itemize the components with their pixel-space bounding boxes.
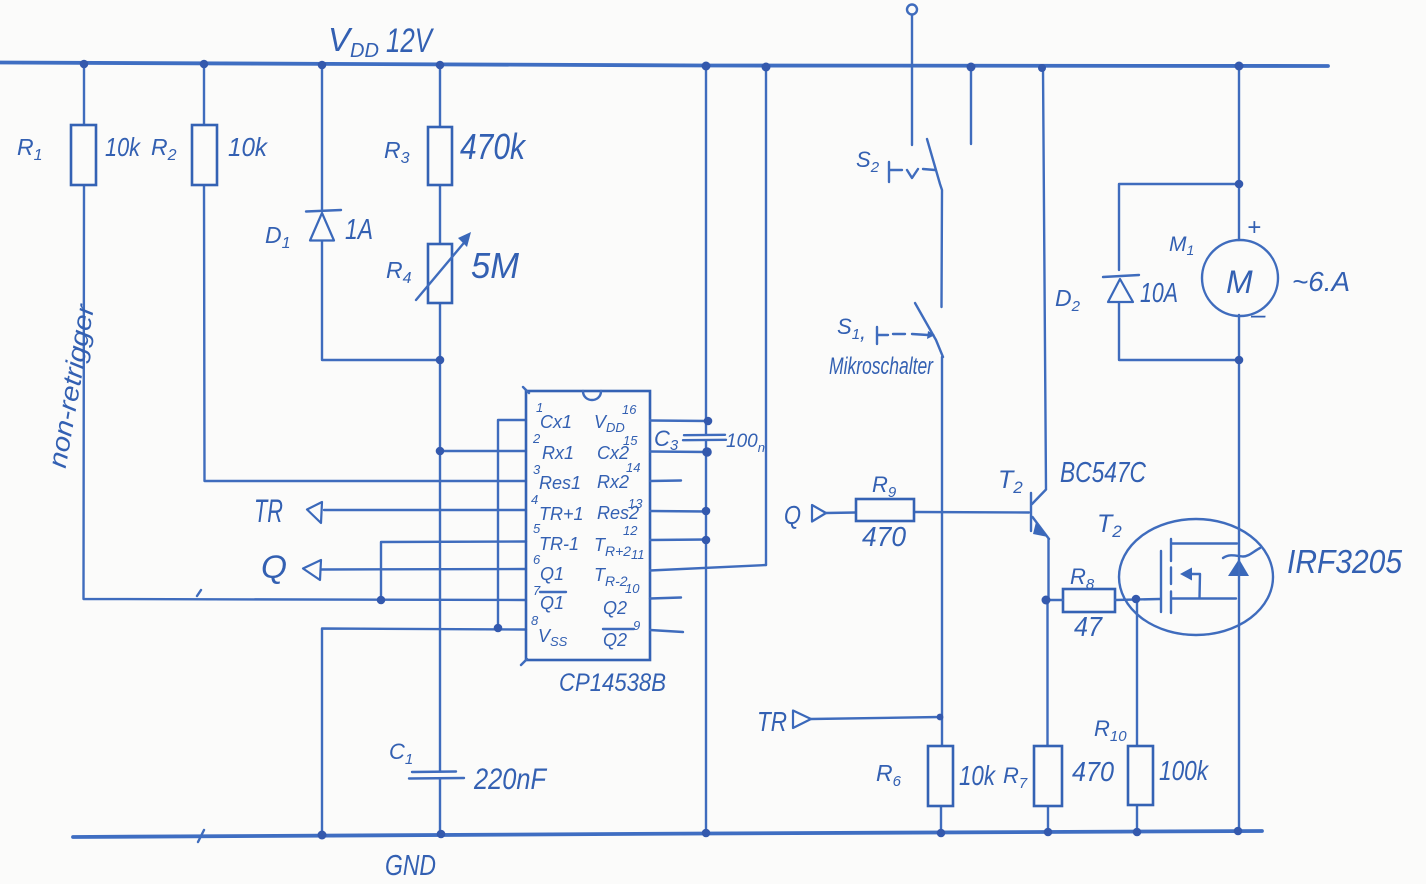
- svg-text:Q2: Q2: [603, 598, 627, 618]
- svg-text:100k: 100k: [1159, 755, 1210, 786]
- svg-text:470k: 470k: [460, 126, 527, 167]
- svg-text:5M: 5M: [471, 245, 519, 286]
- svg-text:Q2: Q2: [603, 630, 627, 650]
- svg-text:Q1: Q1: [540, 593, 564, 613]
- svg-text:Cx2: Cx2: [597, 443, 629, 463]
- svg-text:TR-1: TR-1: [539, 534, 579, 554]
- svg-text:1A: 1A: [345, 214, 373, 246]
- svg-text:10k: 10k: [105, 132, 142, 162]
- svg-text:Rx2: Rx2: [597, 472, 629, 492]
- svg-text:BC547C: BC547C: [1060, 457, 1147, 489]
- svg-text:12: 12: [623, 523, 638, 538]
- svg-text:2: 2: [532, 431, 541, 446]
- svg-text:11: 11: [631, 547, 645, 562]
- svg-text:9: 9: [633, 618, 640, 633]
- svg-text:10k: 10k: [228, 132, 269, 162]
- svg-text:CP14538B: CP14538B: [559, 669, 666, 697]
- svg-text:Q1: Q1: [540, 564, 564, 584]
- svg-text:12V: 12V: [386, 22, 435, 60]
- svg-text:Res2: Res2: [597, 503, 639, 523]
- svg-text:IRF3205: IRF3205: [1287, 543, 1403, 580]
- svg-text:TR: TR: [757, 706, 787, 737]
- svg-text:220nF: 220nF: [473, 763, 547, 796]
- svg-text:47: 47: [1074, 611, 1103, 642]
- svg-text:470: 470: [1072, 756, 1114, 787]
- svg-text:Mikroschalter: Mikroschalter: [829, 353, 934, 380]
- svg-text:Cx1: Cx1: [540, 412, 572, 432]
- svg-text:4: 4: [531, 492, 538, 507]
- svg-text:Res1: Res1: [539, 473, 581, 493]
- svg-text:Q: Q: [261, 549, 287, 585]
- svg-text:~6.A: ~6.A: [1292, 266, 1350, 297]
- svg-text:+: +: [1247, 214, 1261, 241]
- svg-text:10A: 10A: [1140, 277, 1178, 308]
- svg-text:TR+1: TR+1: [539, 504, 584, 524]
- svg-text:10k: 10k: [959, 760, 997, 791]
- svg-text:M: M: [1226, 264, 1253, 300]
- svg-text:–: –: [1250, 299, 1266, 329]
- svg-text:Q: Q: [784, 500, 801, 530]
- svg-text:16: 16: [622, 402, 637, 417]
- svg-text:GND: GND: [385, 850, 436, 882]
- svg-text:Rx1: Rx1: [542, 443, 574, 463]
- svg-text:470: 470: [862, 521, 906, 552]
- svg-text:TR: TR: [254, 493, 283, 529]
